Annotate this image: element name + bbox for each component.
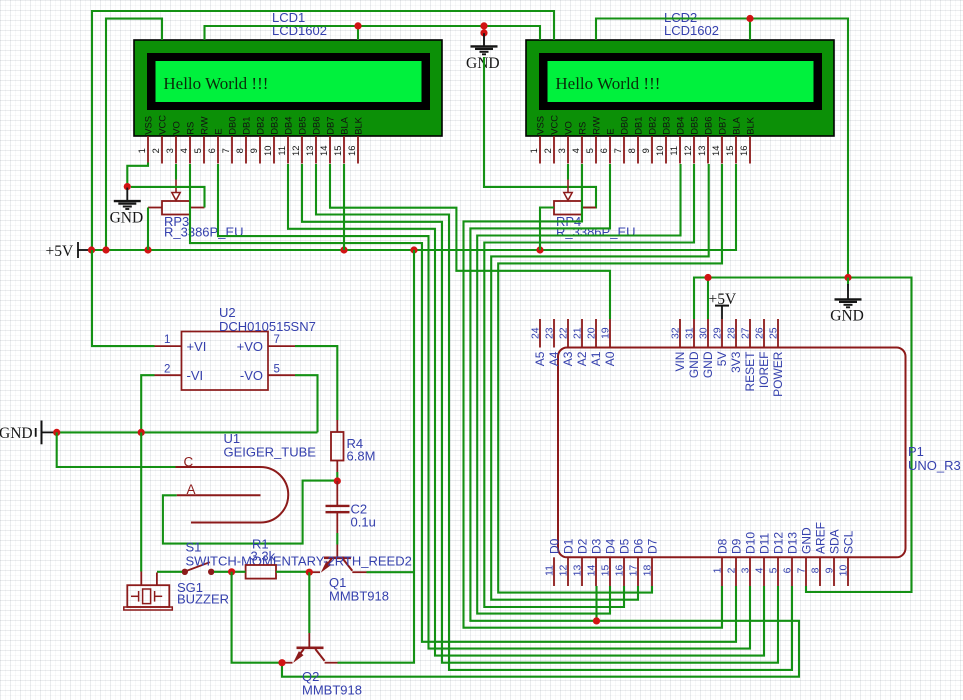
svg-text:3V3: 3V3 bbox=[729, 351, 743, 373]
wire LCD1 DB4 to Arduino D11 bbox=[288, 164, 764, 656]
svg-text:+VI: +VI bbox=[187, 339, 207, 354]
wire LCD2 E to Arduino D3 and Q2 emitter loop bbox=[282, 164, 799, 677]
junction node switch / R1 / Q2-emitter branch bbox=[228, 568, 235, 575]
LCD1 pin numbers 1-16 bbox=[136, 146, 357, 156]
svg-text:DB6: DB6 bbox=[703, 117, 714, 135]
svg-text:1: 1 bbox=[136, 148, 147, 153]
junction GND rail / top-right drop bbox=[844, 274, 851, 281]
wire Arduino D3 stub to node bbox=[595, 586, 597, 621]
svg-text:SCL: SCL bbox=[842, 530, 856, 554]
svg-text:16: 16 bbox=[738, 146, 749, 156]
svg-text:11: 11 bbox=[668, 146, 679, 156]
svg-text:GND: GND bbox=[110, 209, 144, 226]
junction GND rail / Arduino pin30 bbox=[704, 274, 711, 281]
wire LCD2 DB7 to Arduino D7 bbox=[498, 164, 722, 593]
wire RP4 left leg to +5V rail bbox=[540, 208, 554, 251]
svg-text:D5: D5 bbox=[618, 538, 632, 554]
svg-text:1: 1 bbox=[712, 567, 724, 573]
wire R4 bottom to node bbox=[336, 472, 338, 481]
svg-text:R_3386P_EU: R_3386P_EU bbox=[164, 225, 244, 240]
ground GND (below LCD1) bbox=[110, 188, 144, 227]
svg-text:DB2: DB2 bbox=[647, 117, 658, 135]
svg-text:2: 2 bbox=[150, 148, 161, 153]
svg-text:D0: D0 bbox=[548, 538, 562, 554]
potentiometer RP3 bbox=[148, 180, 205, 215]
junction +5V rail / outer riser bbox=[88, 246, 95, 253]
svg-text:14: 14 bbox=[710, 146, 721, 156]
svg-text:VO: VO bbox=[171, 121, 182, 135]
svg-text:10: 10 bbox=[654, 146, 665, 156]
svg-text:IOREF: IOREF bbox=[757, 352, 771, 389]
svg-text:DB4: DB4 bbox=[283, 117, 294, 135]
potentiometer RP4 bbox=[540, 180, 596, 215]
svg-text:-VO: -VO bbox=[240, 368, 263, 383]
svg-text:LCD1602: LCD1602 bbox=[664, 23, 719, 38]
svg-text:U2: U2 bbox=[219, 305, 236, 320]
svg-text:D8: D8 bbox=[716, 538, 730, 554]
svg-text:13: 13 bbox=[304, 146, 315, 156]
svg-text:RS: RS bbox=[185, 122, 196, 135]
svg-text:28: 28 bbox=[726, 327, 738, 339]
junction node Q2 emitter / loop bbox=[278, 659, 285, 666]
svg-text:9: 9 bbox=[248, 148, 259, 153]
wire LCD1 VSS hook to GND bbox=[127, 163, 148, 187]
ground GND (right, above Arduino) bbox=[830, 278, 864, 325]
svg-text:10: 10 bbox=[838, 565, 850, 577]
wire +5V riser x414 down to Q2 collector bbox=[338, 250, 415, 663]
svg-text:2: 2 bbox=[164, 363, 170, 375]
svg-text:E: E bbox=[213, 129, 224, 135]
wire GND down to geiger cathode bbox=[57, 432, 176, 467]
LCD2 pin labels VSS..BLK bbox=[535, 115, 756, 135]
svg-text:GND: GND bbox=[687, 351, 701, 378]
wire LCD1 DB6 to Arduino D13 bbox=[316, 164, 792, 670]
resistor R1 bbox=[246, 565, 276, 579]
wire C2 bottom to Q1 base bbox=[336, 533, 338, 545]
svg-text:GND: GND bbox=[800, 527, 814, 554]
junction node LCD1-VSS / RP3 wiper-return / GND bbox=[124, 183, 131, 190]
svg-text:DB2: DB2 bbox=[255, 117, 266, 135]
svg-text:A4: A4 bbox=[547, 351, 561, 366]
svg-text:3: 3 bbox=[556, 148, 567, 153]
svg-text:15: 15 bbox=[332, 146, 343, 156]
svg-text:9: 9 bbox=[640, 148, 651, 153]
svg-text:DB5: DB5 bbox=[689, 117, 700, 135]
wire LCD2 VO to RP4 wiper bbox=[567, 164, 569, 180]
svg-text:DB3: DB3 bbox=[661, 117, 672, 135]
svg-text:4: 4 bbox=[570, 148, 581, 153]
svg-text:D4: D4 bbox=[604, 538, 618, 554]
P1 bottom pin names bbox=[548, 522, 856, 554]
svg-text:A1: A1 bbox=[589, 351, 603, 366]
wire LCD2 DB5 to Arduino D5 bbox=[484, 164, 694, 607]
P1 bottom pins (D0-D7, D8..SCL) bbox=[554, 557, 848, 586]
wire LCD1 DB5 to Arduino D12 bbox=[302, 164, 778, 663]
svg-text:DB7: DB7 bbox=[325, 117, 336, 135]
svg-text:29: 29 bbox=[712, 327, 724, 339]
svg-text:2: 2 bbox=[542, 148, 553, 153]
svg-text:GEIGER_TUBE: GEIGER_TUBE bbox=[224, 445, 317, 460]
svg-text:DCH010515SN7: DCH010515SN7 bbox=[219, 319, 316, 334]
wire +5V to LCD1 VCC (top inner) bbox=[106, 19, 162, 250]
wire geiger anode to R4/C2 node bbox=[163, 481, 334, 544]
svg-text:23: 23 bbox=[544, 327, 556, 339]
capacitor C2 bbox=[326, 481, 350, 533]
svg-text:S1: S1 bbox=[186, 540, 202, 555]
svg-text:Hello World !!!: Hello World !!! bbox=[163, 74, 268, 93]
svg-text:DB1: DB1 bbox=[241, 117, 252, 135]
wire LCD1 E to Arduino D10 bbox=[218, 164, 750, 649]
wire U2 -VO to GND net bbox=[295, 375, 318, 432]
svg-text:SWITCH-MOMENTARY-2RTH_REED2: SWITCH-MOMENTARY-2RTH_REED2 bbox=[186, 554, 412, 569]
junction node R4 / C2 / geiger anode bbox=[334, 477, 341, 484]
svg-text:6: 6 bbox=[782, 567, 794, 573]
svg-text:RS: RS bbox=[577, 122, 588, 135]
wire RP3 right leg up to GND node bbox=[131, 187, 205, 208]
svg-text:DB7: DB7 bbox=[717, 117, 728, 135]
wire buzzer negative up to GND node bbox=[140, 432, 142, 571]
svg-text:Hello World !!!: Hello World !!! bbox=[555, 74, 660, 93]
LCD module LCD1 body bbox=[134, 40, 442, 136]
wire R1 to Q1 emitter bbox=[276, 571, 309, 573]
svg-text:6: 6 bbox=[598, 148, 609, 153]
svg-text:RESET: RESET bbox=[743, 351, 757, 392]
svg-text:13: 13 bbox=[572, 565, 584, 577]
svg-text:3.3k: 3.3k bbox=[251, 549, 276, 564]
LCD module LCD2 body bbox=[526, 40, 834, 136]
wire switch node down to Q2 emitter bbox=[232, 572, 282, 663]
IC U2 DCH010515SN7 body bbox=[155, 332, 296, 391]
resistor R4 bbox=[331, 420, 344, 472]
svg-text:5: 5 bbox=[192, 148, 203, 153]
svg-text:5: 5 bbox=[274, 363, 280, 375]
svg-text:12: 12 bbox=[558, 565, 570, 577]
svg-text:D1: D1 bbox=[562, 538, 576, 554]
svg-text:A5: A5 bbox=[533, 351, 547, 366]
wire RP3 left leg to +5V rail bbox=[147, 208, 149, 251]
svg-text:GND: GND bbox=[701, 351, 715, 378]
junction node D3 / E2 bus bbox=[593, 617, 600, 624]
wire GND symbol stem down to RP4 net bbox=[484, 57, 596, 208]
svg-text:31: 31 bbox=[684, 327, 696, 339]
svg-text:+VO: +VO bbox=[237, 339, 263, 354]
wire Q1 collector to +5V riser bbox=[367, 571, 415, 573]
wire LCD2 RS to Arduino D8 bbox=[464, 164, 723, 628]
svg-text:P1: P1 bbox=[908, 444, 924, 459]
svg-text:32: 32 bbox=[670, 327, 682, 339]
svg-text:VSS: VSS bbox=[143, 116, 154, 135]
svg-text:17: 17 bbox=[628, 565, 640, 577]
svg-text:D11: D11 bbox=[758, 533, 772, 554]
svg-text:7: 7 bbox=[612, 148, 623, 153]
wire GND horizontal (flag to -VO riser) bbox=[57, 431, 318, 433]
svg-text:8: 8 bbox=[234, 148, 245, 153]
svg-text:4: 4 bbox=[178, 148, 189, 153]
svg-text:DB5: DB5 bbox=[297, 117, 308, 135]
svg-text:15: 15 bbox=[724, 146, 735, 156]
P1 bottom pin numbers bbox=[544, 565, 850, 577]
junction GND / U2 -VI / buzzer bbox=[138, 429, 145, 436]
wire LCD1 BLA to +5V rail bbox=[343, 164, 345, 250]
ground GND (top centre) bbox=[466, 22, 500, 72]
svg-text:20: 20 bbox=[586, 327, 598, 339]
svg-text:BUZZER: BUZZER bbox=[177, 592, 229, 607]
svg-text:R/W: R/W bbox=[591, 116, 602, 134]
svg-text:D3: D3 bbox=[590, 538, 604, 554]
LCD2 pin numbers 1-16 bbox=[528, 146, 749, 156]
svg-text:A3: A3 bbox=[561, 351, 575, 366]
svg-text:8: 8 bbox=[626, 148, 637, 153]
svg-text:D6: D6 bbox=[632, 538, 646, 554]
svg-text:A2: A2 bbox=[575, 351, 589, 366]
transistor Q2 MMBT918 bbox=[282, 633, 338, 663]
junction LCD1-BLK on GND top bus bbox=[354, 22, 361, 29]
svg-text:12: 12 bbox=[682, 146, 693, 156]
svg-text:25: 25 bbox=[768, 327, 780, 339]
junction +5V rail / RP4 left leg bbox=[536, 246, 543, 253]
svg-text:6.8M: 6.8M bbox=[347, 449, 376, 464]
wire LCD2 DB4 to Arduino D4 bbox=[477, 164, 680, 614]
svg-text:A0: A0 bbox=[603, 351, 617, 366]
switch S1 bbox=[182, 562, 213, 574]
transistor Q1 MMBT918 bbox=[309, 545, 366, 573]
svg-text:DB4: DB4 bbox=[675, 117, 686, 135]
svg-text:7: 7 bbox=[796, 567, 808, 573]
svg-text:9: 9 bbox=[824, 567, 836, 573]
svg-text:D13: D13 bbox=[786, 532, 800, 554]
svg-text:GND: GND bbox=[466, 55, 500, 72]
wire GND top-right bus to LCD2 R/W and BLK bbox=[596, 19, 848, 278]
svg-text:VIN: VIN bbox=[673, 352, 687, 372]
svg-text:11: 11 bbox=[544, 565, 556, 576]
wire GND rail to Arduino pins 31/30 and pin7-GND bbox=[694, 278, 912, 593]
svg-text:A: A bbox=[187, 482, 196, 497]
wire buzzer+ to switch bbox=[157, 571, 182, 573]
svg-text:18: 18 bbox=[642, 565, 654, 577]
svg-text:14: 14 bbox=[318, 146, 329, 156]
svg-text:8: 8 bbox=[810, 567, 822, 573]
LCD2 pins 1-16 bbox=[540, 136, 750, 164]
svg-text:DB6: DB6 bbox=[311, 117, 322, 135]
svg-text:-VI: -VI bbox=[187, 368, 204, 383]
svg-text:GND: GND bbox=[0, 425, 33, 442]
P1 top pins (A5-A0, VIN..POWER) bbox=[540, 319, 778, 348]
svg-text:5V: 5V bbox=[715, 352, 729, 367]
svg-text:BLA: BLA bbox=[731, 116, 742, 134]
P1 top pin names bbox=[533, 351, 785, 397]
svg-text:3: 3 bbox=[740, 567, 752, 573]
svg-text:7: 7 bbox=[220, 148, 231, 153]
svg-text:D9: D9 bbox=[730, 538, 744, 554]
wire GND top bus to LCD1 R/W, LCD1 BLK, LCD2 VSS bbox=[205, 26, 541, 40]
svg-text:6: 6 bbox=[206, 148, 217, 153]
svg-text:2: 2 bbox=[726, 567, 738, 573]
junction +5V rail / RP3 left leg bbox=[144, 246, 151, 253]
ground GND (left flag) bbox=[0, 421, 57, 445]
svg-text:30: 30 bbox=[698, 327, 710, 339]
svg-text:AREF: AREF bbox=[814, 522, 828, 554]
svg-text:R/W: R/W bbox=[199, 116, 210, 134]
wire LCD2 DB6 to Arduino D6 bbox=[491, 164, 709, 600]
svg-text:26: 26 bbox=[754, 327, 766, 339]
svg-text:5: 5 bbox=[768, 567, 780, 573]
svg-text:22: 22 bbox=[558, 327, 570, 339]
svg-text:D2: D2 bbox=[576, 538, 590, 554]
svg-text:SDA: SDA bbox=[828, 529, 842, 554]
wire LCD1 DB7 to Arduino A0 bbox=[330, 164, 610, 319]
svg-text:BLA: BLA bbox=[339, 116, 350, 134]
svg-text:MMBT918: MMBT918 bbox=[329, 589, 389, 604]
svg-text:5: 5 bbox=[584, 148, 595, 153]
LCD1 pins 1-16 bbox=[148, 136, 358, 164]
LCD1 pin labels VSS..BLK bbox=[143, 115, 364, 135]
svg-text:D12: D12 bbox=[772, 532, 786, 554]
svg-text:27: 27 bbox=[740, 327, 752, 339]
svg-text:7: 7 bbox=[274, 334, 280, 346]
svg-text:UNO_R3: UNO_R3 bbox=[908, 458, 961, 473]
svg-text:C: C bbox=[184, 455, 194, 470]
svg-text:12: 12 bbox=[290, 146, 301, 156]
connector P1 UNO_R3 body bbox=[558, 348, 906, 558]
geiger tube U1 bbox=[176, 455, 289, 523]
wire +5V rail down to U2 +VI bbox=[92, 250, 155, 346]
svg-text:16: 16 bbox=[346, 146, 357, 156]
svg-text:POWER: POWER bbox=[771, 351, 785, 397]
wire Q1 emitter node down to Q2 base bbox=[308, 572, 310, 633]
svg-text:VO: VO bbox=[563, 121, 574, 135]
svg-text:DB0: DB0 bbox=[227, 117, 238, 135]
junction +5V rail / LCD1 BLA bbox=[340, 246, 347, 253]
svg-text:VSS: VSS bbox=[535, 116, 546, 135]
svg-text:DB3: DB3 bbox=[269, 117, 280, 135]
junction node Q1 emitter / Q2 base bbox=[306, 569, 313, 576]
junction +5V rail / Q1-Q2 collector riser bbox=[410, 246, 417, 253]
svg-text:VCC: VCC bbox=[549, 115, 560, 135]
svg-text:MMBT918: MMBT918 bbox=[302, 683, 362, 696]
svg-text:13: 13 bbox=[696, 146, 707, 156]
P1 top pin numbers bbox=[530, 327, 780, 339]
wire +5V rail bbox=[90, 164, 736, 250]
wire switch to R1 bbox=[214, 571, 246, 573]
power flag +5V (left) bbox=[46, 242, 91, 260]
svg-text:19: 19 bbox=[600, 327, 612, 339]
wire +5V to LCD2 VCC (top outer) bbox=[92, 11, 554, 250]
svg-text:D10: D10 bbox=[744, 532, 758, 554]
wire LCD1 RS to Arduino D9 bbox=[190, 164, 736, 642]
junction GND flag / tube cathode drop bbox=[53, 429, 60, 436]
svg-text:14: 14 bbox=[586, 565, 598, 577]
wire U2 +VO to R4 top bbox=[295, 346, 337, 420]
svg-text:D7: D7 bbox=[646, 538, 660, 554]
svg-text:10: 10 bbox=[262, 146, 273, 156]
svg-text:DB1: DB1 bbox=[633, 117, 644, 135]
svg-text:DB0: DB0 bbox=[619, 117, 630, 135]
svg-text:BLK: BLK bbox=[745, 116, 756, 134]
svg-text:BLK: BLK bbox=[353, 116, 364, 134]
svg-text:0.1u: 0.1u bbox=[351, 515, 376, 530]
svg-text:4: 4 bbox=[754, 567, 766, 573]
svg-text:24: 24 bbox=[530, 327, 542, 339]
svg-text:15: 15 bbox=[600, 565, 612, 577]
svg-text:11: 11 bbox=[276, 146, 287, 156]
svg-text:16: 16 bbox=[614, 565, 626, 577]
svg-text:3: 3 bbox=[164, 148, 175, 153]
svg-text:VCC: VCC bbox=[157, 115, 168, 135]
svg-text:21: 21 bbox=[572, 327, 584, 339]
junction +5V rail / inner riser bbox=[102, 246, 109, 253]
svg-text:R_3386P_EU: R_3386P_EU bbox=[556, 225, 636, 240]
svg-text:1: 1 bbox=[164, 334, 170, 346]
wire LCD1 VO to RP3 wiper bbox=[175, 164, 177, 180]
svg-text:1: 1 bbox=[528, 148, 539, 153]
svg-text:GND: GND bbox=[830, 308, 864, 325]
power flag +5V (Arduino 5V pin) bbox=[709, 291, 737, 319]
buzzer SG1 bbox=[124, 572, 173, 611]
junction LCD2-BLK on GND top-right bus bbox=[746, 15, 753, 22]
svg-text:+5V: +5V bbox=[46, 243, 74, 260]
wire U2 -VI to GND net bbox=[141, 375, 154, 432]
svg-text:E: E bbox=[605, 129, 616, 135]
